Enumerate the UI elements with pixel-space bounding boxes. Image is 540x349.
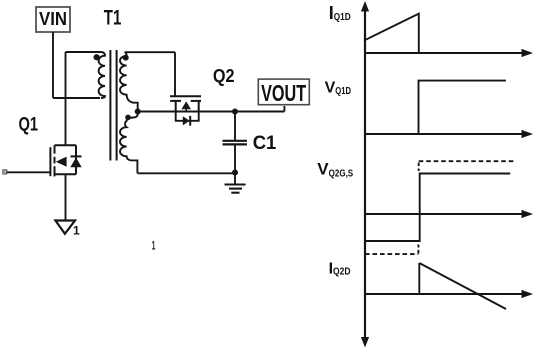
secondary top polarity dot xyxy=(123,55,129,61)
Q2 arrow (body connection) xyxy=(181,101,191,109)
svg-text:VQ1D: VQ1D xyxy=(325,79,351,97)
svg-text:VQ2G,S: VQ2G,S xyxy=(317,160,353,180)
waveform IQ2D edge xyxy=(418,263,420,294)
Q1 body diode branch xyxy=(75,145,77,174)
VIN box xyxy=(36,7,70,32)
Q1 arrow xyxy=(56,157,67,167)
svg-text:Q2: Q2 xyxy=(213,66,235,86)
ground triangle below Q1 xyxy=(55,221,75,234)
Q2 channel legs xyxy=(175,101,177,112)
waveform VQ2GS dashed high xyxy=(419,160,514,162)
Q1 top bar xyxy=(55,144,77,146)
axis 1 xyxy=(365,52,523,54)
Q2 body diode loop xyxy=(176,112,199,121)
svg-text:VIN: VIN xyxy=(39,9,67,29)
Q2 body diode xyxy=(183,116,190,125)
Q1 channel segments xyxy=(54,145,56,153)
waveform VQ2GS dashed low xyxy=(365,253,418,255)
wire main output rail xyxy=(138,111,285,113)
wire primary top xyxy=(66,51,102,53)
svg-text:IQ1D: IQ1D xyxy=(329,3,351,23)
svg-text:Q1: Q1 xyxy=(19,114,39,136)
wire bottom rail xyxy=(137,172,235,174)
Q1 body diode xyxy=(70,158,81,168)
waveform IQ2D ramp xyxy=(419,263,506,309)
capacitor C1 lead bottom xyxy=(234,146,236,173)
waveform VQ2GS solid pulse xyxy=(365,174,510,242)
svg-text:VOUT: VOUT xyxy=(261,80,306,106)
node output junction dot xyxy=(232,109,238,115)
wire left vertical to Q1 drain xyxy=(65,52,67,145)
node ground junction dot xyxy=(232,170,238,176)
Q2 gate bar xyxy=(170,95,201,97)
axis 4 xyxy=(365,293,523,295)
svg-text:C1: C1 xyxy=(253,133,277,154)
Q1 gate bar xyxy=(49,147,51,176)
wire primary bottom xyxy=(53,97,100,99)
transformer core xyxy=(109,50,111,161)
Q1 gate terminal xyxy=(3,170,7,174)
Q2 channel segments xyxy=(170,100,181,102)
waveform VQ2GS dashed edge bottom xyxy=(417,245,419,254)
transformer secondary bottom winding xyxy=(120,112,138,174)
svg-text:1: 1 xyxy=(152,239,156,253)
node center-tap junction dot xyxy=(135,109,141,115)
svg-text:1: 1 xyxy=(73,223,80,237)
VOUT box xyxy=(258,79,309,105)
transformer secondary top winding xyxy=(120,52,175,111)
svg-text:T1: T1 xyxy=(104,6,122,29)
waveform IQ1D ramp xyxy=(366,14,419,53)
wire Q2 gate from secondary top xyxy=(174,52,176,95)
waveform VQ1D pulse xyxy=(419,81,506,134)
axis 2 xyxy=(365,133,523,135)
waveform VQ2GS dashed edge top xyxy=(418,163,420,172)
secondary bottom polarity dot xyxy=(125,115,131,121)
Q1 bottom bar xyxy=(55,173,77,175)
axis 3 xyxy=(365,213,523,215)
waveform vertical axis xyxy=(364,9,366,339)
wire VOUT lead xyxy=(283,106,285,112)
capacitor C1 xyxy=(223,140,248,142)
wire Q1 gate lead xyxy=(7,171,51,173)
wire VIN lead xyxy=(52,32,54,98)
mosfet Q2 (rotated, gate on top) xyxy=(170,96,201,111)
ground under C1 xyxy=(234,173,236,184)
mosfet Q1 xyxy=(50,145,81,176)
wire Q1 source lead xyxy=(65,174,67,220)
primary polarity dot xyxy=(94,54,100,60)
capacitor C1 lead top xyxy=(234,112,236,141)
svg-text:IQ2D: IQ2D xyxy=(329,260,351,277)
transformer T1 primary winding xyxy=(99,52,105,98)
